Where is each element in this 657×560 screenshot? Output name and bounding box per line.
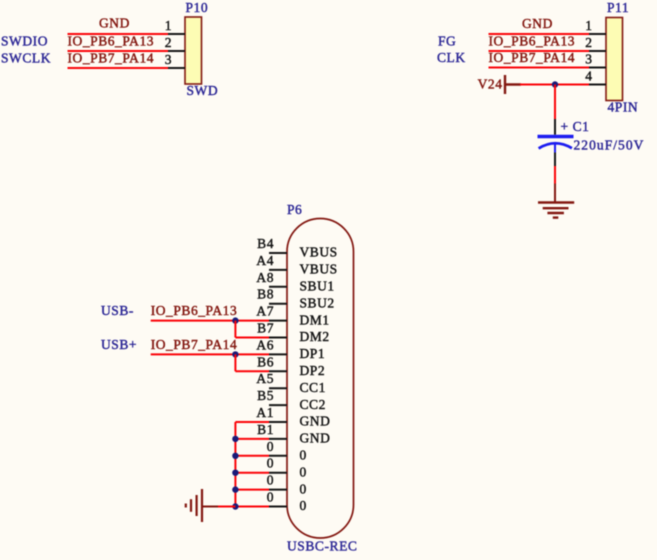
svg-text:FG: FG: [438, 34, 456, 49]
svg-text:VBUS: VBUS: [300, 262, 338, 277]
svg-text:0: 0: [300, 464, 307, 479]
wire V24 to P11 pin 4: [520, 84, 589, 86]
pin 3 of P11: [585, 52, 606, 68]
svg-text:CC2: CC2: [300, 397, 326, 412]
wire to pin B6: [235, 370, 269, 372]
svg-text:B4: B4: [257, 236, 274, 251]
svg-text:B8: B8: [257, 287, 274, 302]
svg-text:IO_PB6_PA13: IO_PB6_PA13: [151, 303, 238, 318]
svg-text:SWDIO: SWDIO: [1, 34, 48, 49]
svg-text:SWCLK: SWCLK: [1, 51, 51, 66]
wire to pin row 12: [235, 438, 269, 440]
pin B8 row 4 of P6: [257, 287, 335, 311]
svg-text:IO_PB7_PA14: IO_PB7_PA14: [151, 337, 238, 352]
port USB+: [101, 337, 137, 352]
svg-text:V24: V24: [478, 77, 503, 92]
svg-text:P11: P11: [607, 0, 629, 15]
wire A6 down to B6: [234, 354, 236, 371]
svg-text:A1: A1: [256, 405, 274, 420]
power ground below C1: [538, 184, 574, 218]
svg-text:0: 0: [300, 481, 307, 496]
svg-text:GND: GND: [300, 414, 331, 429]
wire to pin A1: [235, 421, 269, 423]
pin 3 of P10: [165, 52, 185, 68]
svg-text:3: 3: [585, 52, 592, 67]
pin 1 of P11: [585, 18, 606, 34]
pin A1 row 11 of P6: [256, 405, 330, 429]
wire IO_PB7_PA14 to P11 pin 3: [489, 67, 590, 69]
svg-text:P10: P10: [186, 0, 209, 15]
pin 1 of P10: [165, 18, 185, 34]
pin B4 row 1 of P6: [257, 236, 338, 260]
svg-text:DM1: DM1: [300, 312, 330, 327]
connector P10 body: [185, 17, 202, 84]
net label IO_PB6_PA13: [489, 34, 576, 49]
svg-text:USB+: USB+: [101, 337, 137, 352]
svg-text:B7: B7: [257, 321, 274, 336]
svg-text:VBUS: VBUS: [300, 245, 338, 260]
junction at row 12: [232, 436, 238, 442]
comment USBC-REC: [287, 539, 357, 554]
ground bus vertical wire: [234, 422, 236, 507]
svg-text:0: 0: [267, 439, 274, 454]
wire to pin row 14: [235, 472, 269, 474]
junction at row 16: [232, 503, 238, 509]
wire ground symbol to bus: [218, 506, 236, 508]
svg-text:0: 0: [267, 473, 274, 488]
wire IO_PB7_PA14 to pin A6: [151, 353, 269, 355]
svg-text:3: 3: [165, 52, 172, 67]
svg-text:GND: GND: [300, 431, 331, 446]
svg-text:SWD: SWD: [187, 83, 219, 98]
net label GND: [99, 16, 130, 31]
pin B1 row 12 of P6: [257, 422, 330, 446]
svg-text:A6: A6: [256, 337, 274, 352]
junction at row 15: [232, 486, 238, 492]
value 220uF/50V: [574, 138, 645, 153]
wire IO_PB6_PA13 to pin A7: [151, 320, 269, 322]
svg-text:1: 1: [585, 18, 592, 33]
port SWCLK: [1, 51, 51, 66]
net label IO_PB6_PA13: [68, 34, 155, 49]
label + C1: [561, 119, 590, 134]
svg-text:B6: B6: [257, 354, 274, 369]
net label IO_PB7_PA14: [151, 337, 238, 352]
connector P6 body (USBC-REC stadium): [287, 219, 354, 539]
net label IO_PB7_PA14: [489, 50, 576, 65]
junction at A6: [232, 351, 238, 357]
svg-text:DP1: DP1: [300, 346, 326, 361]
svg-text:0: 0: [267, 456, 274, 471]
svg-text:A7: A7: [256, 304, 274, 319]
pin A5 row 9 of P6: [256, 371, 326, 395]
svg-text:IO_PB7_PA14: IO_PB7_PA14: [68, 51, 155, 66]
port SWDIO: [1, 34, 48, 49]
wire to pin row 13: [235, 455, 269, 457]
svg-text:4: 4: [585, 69, 592, 84]
wire GND to P10 pin 1: [68, 33, 169, 35]
junction at V24/C1 node: [552, 81, 558, 87]
svg-text:GND: GND: [522, 16, 553, 31]
net label IO_PB6_PA13: [151, 303, 238, 318]
svg-text:CLK: CLK: [437, 50, 466, 65]
wire IO_PB6_PA13 to P11 pin 2: [489, 50, 590, 52]
wire to pin B7: [235, 337, 269, 339]
designator P6: [287, 202, 302, 217]
pin 0 row 13 of P6: [267, 439, 307, 463]
svg-text:USB-: USB-: [101, 303, 134, 318]
net label IO_PB7_PA14: [68, 51, 155, 66]
svg-text:IO_PB7_PA14: IO_PB7_PA14: [489, 50, 576, 65]
wire junction down to C1: [554, 85, 556, 120]
svg-text:A4: A4: [256, 253, 274, 268]
pin 2 of P11: [585, 35, 606, 51]
comment SWD: [187, 83, 219, 98]
svg-text:0: 0: [300, 448, 307, 463]
port FG: [438, 34, 456, 49]
wire IO_PB7_PA14 to P10 pin 3: [68, 67, 169, 69]
connector P11 body: [606, 18, 623, 101]
svg-text:0: 0: [267, 490, 274, 505]
pin 0 row 16 of P6: [267, 490, 307, 514]
junction at A7: [232, 317, 238, 323]
svg-text:B5: B5: [257, 388, 274, 403]
junction at row 14: [232, 470, 238, 476]
pin A7 row 5 of P6: [256, 304, 329, 328]
svg-text:P6: P6: [287, 202, 302, 217]
svg-text:2: 2: [585, 35, 592, 50]
designator P11: [607, 0, 629, 15]
wire to pin row 16: [235, 506, 269, 508]
svg-text:USBC-REC: USBC-REC: [287, 539, 357, 554]
pin A4 row 2 of P6: [256, 253, 337, 277]
svg-text:A5: A5: [256, 371, 274, 386]
pin B6 row 8 of P6: [257, 354, 325, 378]
svg-text:DM2: DM2: [300, 329, 330, 344]
pin A8 row 3 of P6: [256, 270, 334, 294]
pin B7 row 6 of P6: [257, 321, 330, 345]
wire to pin row 15: [235, 489, 269, 491]
svg-text:CC1: CC1: [300, 380, 326, 395]
wire A7 down to B7: [234, 321, 236, 338]
svg-text:4PIN: 4PIN: [608, 100, 639, 115]
svg-text:IO_PB6_PA13: IO_PB6_PA13: [68, 34, 155, 49]
svg-text:SBU1: SBU1: [300, 279, 335, 294]
wire C1 to ground: [554, 166, 556, 185]
designator P10: [186, 0, 209, 15]
port USB-: [101, 303, 134, 318]
svg-text:SBU2: SBU2: [300, 295, 335, 310]
comment 4PIN: [608, 100, 639, 115]
svg-text:2: 2: [165, 35, 172, 50]
pin 4 of P11: [585, 69, 606, 85]
svg-text:1: 1: [165, 18, 172, 33]
earth ground at P6: [186, 489, 218, 522]
port CLK: [437, 50, 466, 65]
wire IO_PB6_PA13 to P10 pin 2: [68, 50, 169, 52]
wire GND to P11 pin 1: [489, 33, 590, 35]
svg-text:220uF/50V: 220uF/50V: [574, 138, 645, 153]
capacitor C1: [538, 119, 574, 166]
pin B5 row 10 of P6: [257, 388, 326, 412]
pin 0 row 15 of P6: [267, 473, 307, 497]
pin 2 of P10: [165, 35, 185, 51]
svg-text:B1: B1: [257, 422, 274, 437]
power port V24: [478, 75, 521, 94]
svg-text:DP2: DP2: [300, 363, 326, 378]
svg-text:A8: A8: [256, 270, 274, 285]
junction at row 13: [232, 453, 238, 459]
net label GND: [522, 16, 553, 31]
svg-text:GND: GND: [99, 16, 130, 31]
svg-text:IO_PB6_PA13: IO_PB6_PA13: [489, 34, 576, 49]
pin 0 row 14 of P6: [267, 456, 307, 480]
pin A6 row 7 of P6: [256, 337, 325, 361]
svg-text:0: 0: [300, 498, 307, 513]
svg-text:+ C1: + C1: [561, 119, 590, 134]
